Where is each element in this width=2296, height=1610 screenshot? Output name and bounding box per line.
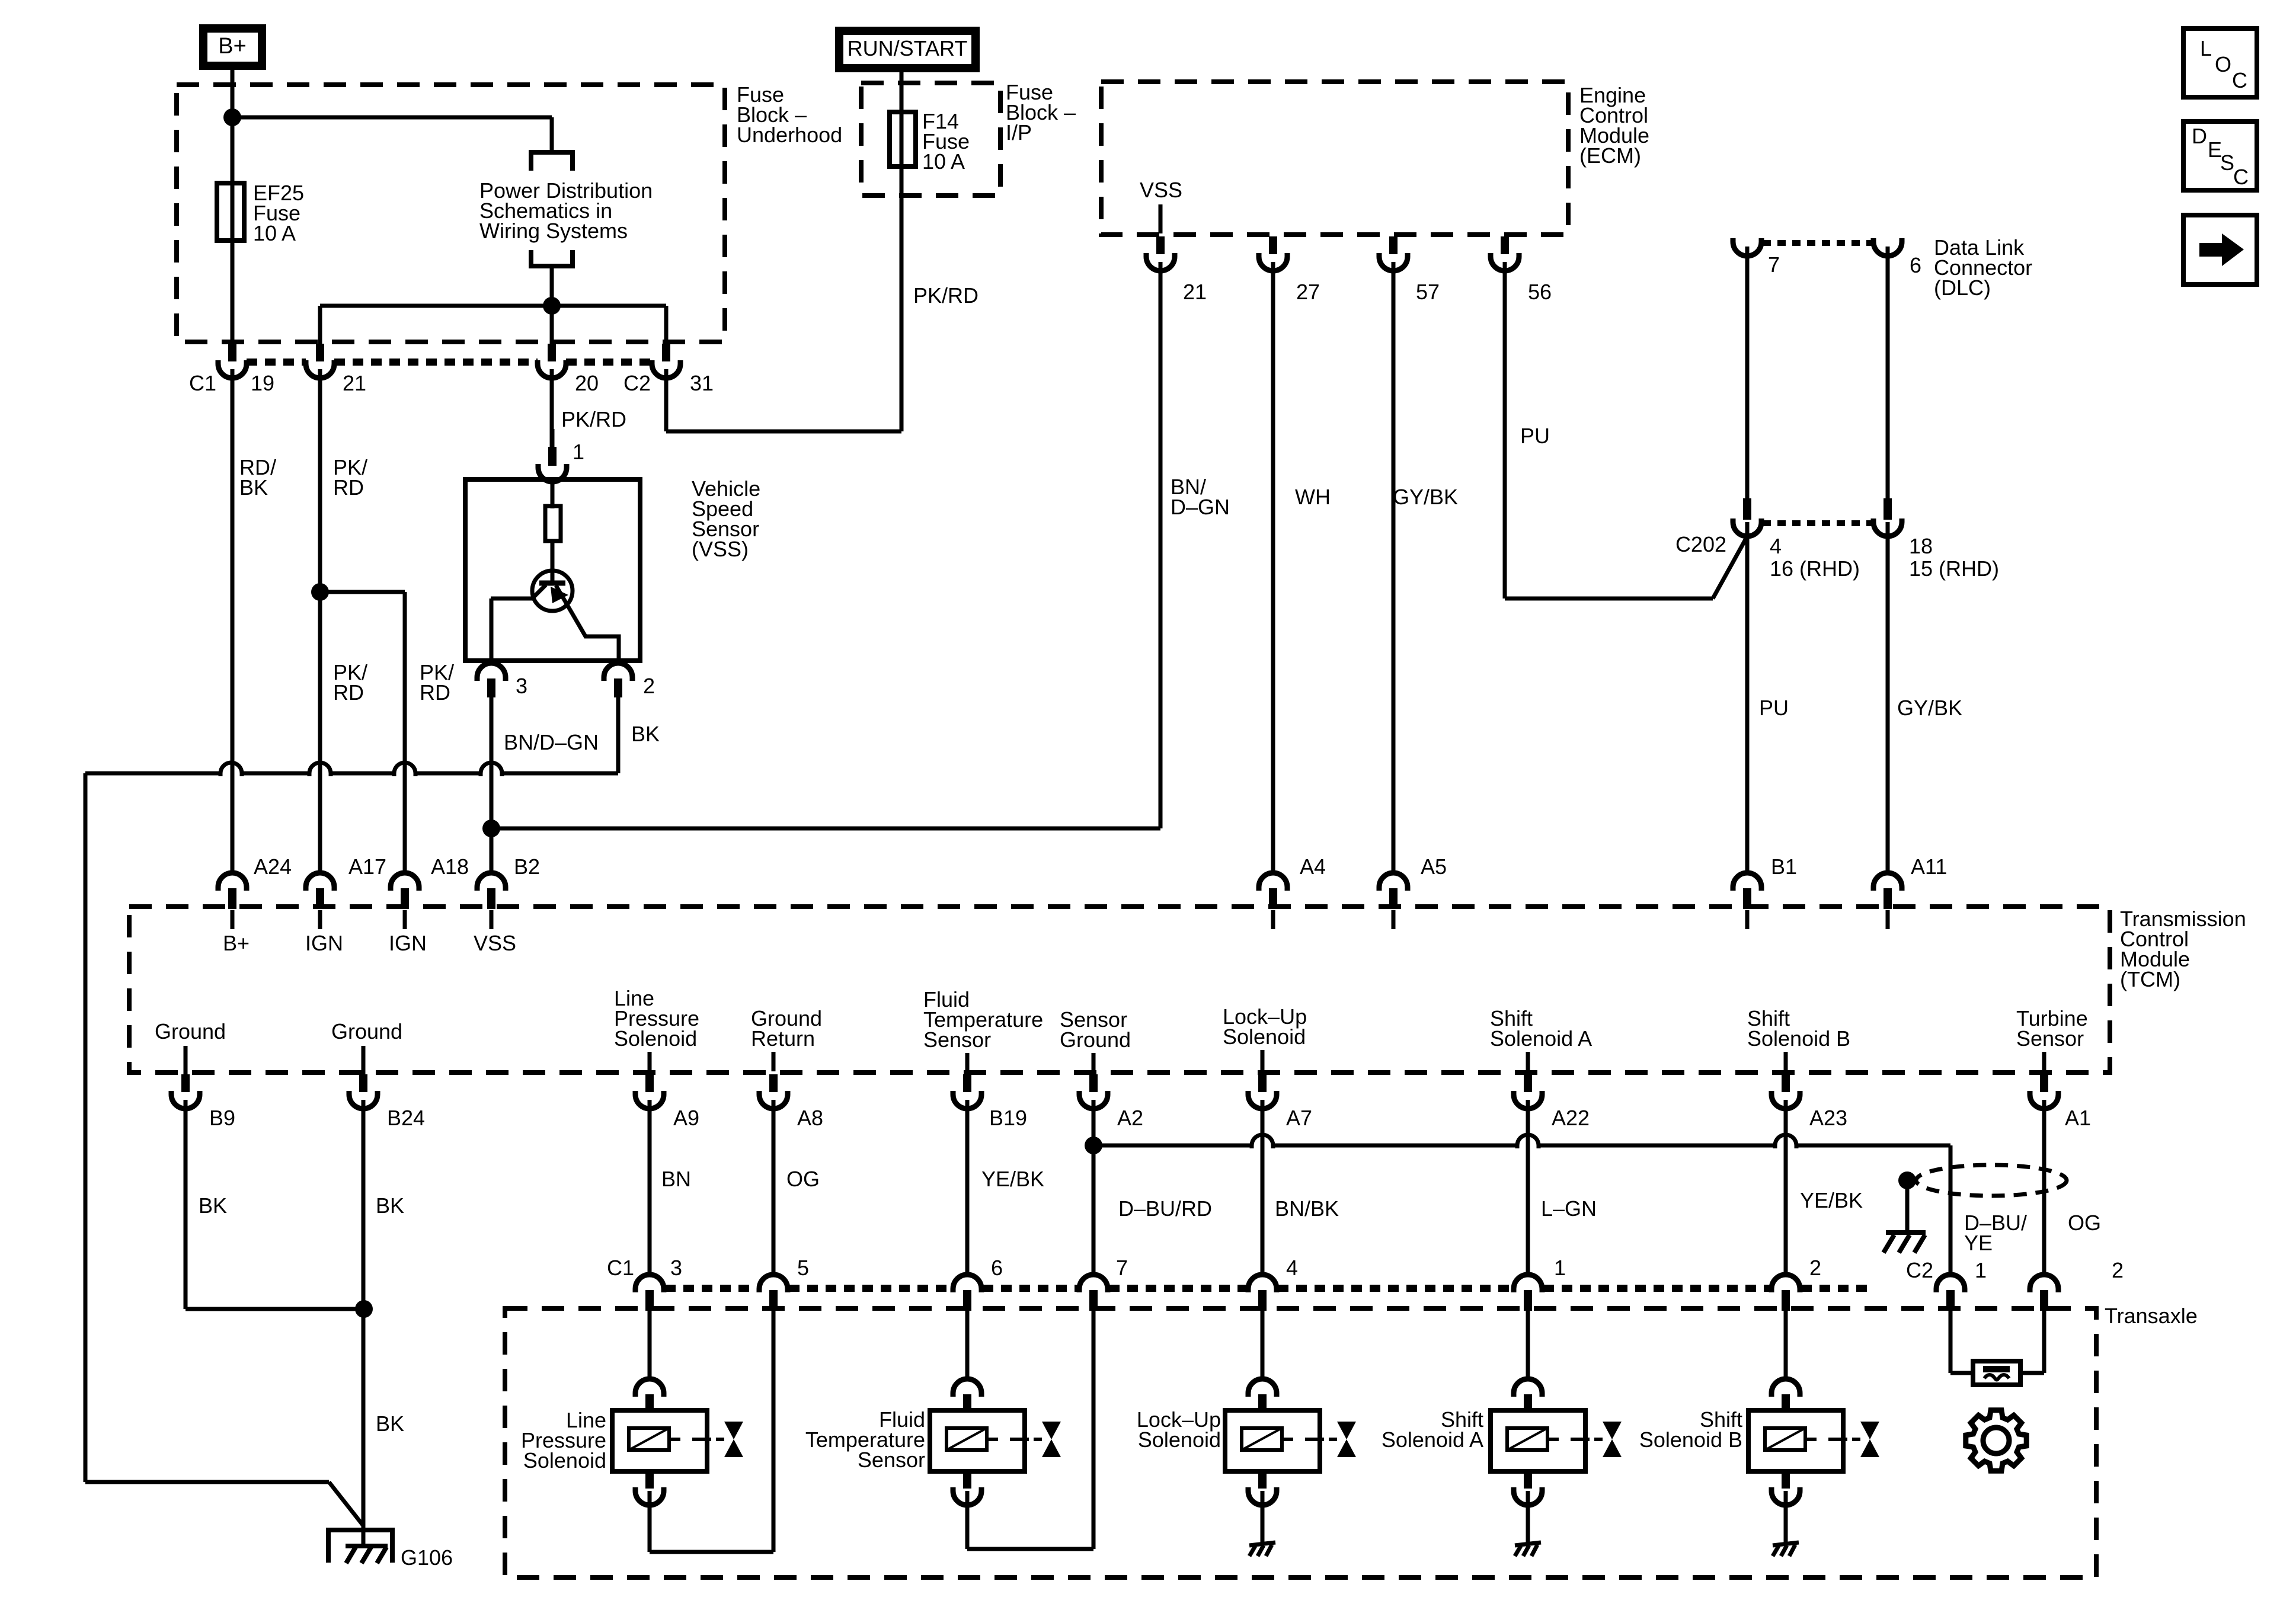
box LOC [2183, 28, 2257, 97]
fuse F14 [890, 112, 916, 167]
svg-text:PU: PU [1520, 424, 1550, 448]
svg-text:5: 5 [797, 1256, 809, 1280]
wire RUN/START to fuse F14 [900, 72, 904, 114]
label D-BU/RD [1118, 1196, 1212, 1221]
svg-text:YE/BK: YE/BK [1800, 1188, 1863, 1212]
labels PU GY/BK lower [1759, 696, 1962, 720]
svg-text:A2: A2 [1117, 1106, 1143, 1130]
connector TCM B24 [349, 1074, 378, 1109]
svg-text:RUN/START: RUN/START [848, 36, 968, 60]
svg-text:7: 7 [1116, 1256, 1128, 1280]
component shift solenoid A [1491, 1308, 1622, 1505]
label fuse EF25 [253, 181, 304, 245]
svg-text:D–GN: D–GN [1171, 495, 1230, 519]
label TCM pin A1 [2065, 1106, 2091, 1130]
wire PK/RD pin20 down [550, 376, 554, 447]
svg-text:PU: PU [1759, 696, 1789, 720]
svg-text:57: 57 [1416, 280, 1440, 304]
connector line DLC [1763, 240, 1872, 246]
label TCM sensor ground [1060, 1007, 1131, 1071]
labels DLC pins [1768, 252, 1921, 277]
svg-text:1: 1 [1554, 1256, 1566, 1280]
label TCM ground return [751, 1006, 822, 1071]
transistor VSS [491, 571, 619, 659]
label OG A1 [2068, 1211, 2101, 1235]
junction PK/RD [311, 583, 329, 601]
connector VSS pin 1 [538, 429, 567, 482]
label power distribution text [479, 178, 653, 243]
wire RD/BK [231, 376, 235, 874]
wire F14 to pin 31 [666, 375, 901, 431]
component line pressure solenoid [612, 1308, 743, 1505]
junction BK [355, 1300, 373, 1318]
svg-text:D–BU/RD: D–BU/RD [1118, 1196, 1212, 1221]
svg-text:Solenoid A: Solenoid A [1382, 1427, 1483, 1452]
connector TCM A2 [1079, 1074, 1108, 1109]
wire shift A ground [1526, 1491, 1530, 1543]
turbine sensor coil [1973, 1361, 2020, 1385]
svg-text:Ground: Ground [155, 1019, 226, 1044]
svg-text:C: C [2233, 165, 2249, 189]
label D-BU/YE [1964, 1211, 2027, 1255]
svg-text:I/P: I/P [1006, 120, 1032, 145]
wire junction to ECM21 [491, 827, 1160, 831]
connector bracket power distribution bottom [531, 250, 573, 266]
wire ECM 27 WH [1271, 267, 1275, 873]
label BK B24 [376, 1193, 404, 1218]
svg-text:Underhood: Underhood [737, 123, 842, 147]
svg-text:GY/BK: GY/BK [1897, 696, 1962, 720]
label BK VSS [631, 722, 660, 746]
wire F14 PK/RD down [900, 72, 904, 431]
svg-text:7: 7 [1768, 252, 1780, 277]
wire B24 BK [362, 1107, 366, 1547]
svg-text:IGN: IGN [389, 931, 427, 955]
labels fuse block pins [189, 371, 714, 395]
wire A8 OG [772, 1107, 776, 1275]
connector C2-2 [2030, 1273, 2058, 1311]
wire FTS return loop [967, 1308, 1093, 1549]
wire ECM VSS stub [1159, 204, 1163, 233]
svg-text:Sensor: Sensor [858, 1448, 925, 1472]
svg-text:Solenoid: Solenoid [1138, 1427, 1221, 1452]
svg-text:B19: B19 [989, 1106, 1027, 1130]
label TCM A17 [348, 854, 386, 879]
svg-text:19: 19 [251, 371, 274, 395]
connector TCM B1 [1733, 872, 1761, 929]
connector pin ECM 21 [1146, 236, 1175, 271]
connector VSS pin 2 [604, 663, 632, 773]
label line pressure solenoid [521, 1408, 606, 1473]
connector DLC pin 7 [1733, 238, 1761, 500]
svg-text:C2: C2 [1906, 1258, 1933, 1282]
label TCM B2 [514, 854, 540, 879]
svg-text:2: 2 [2112, 1258, 2124, 1282]
label TCM pin B9 [209, 1106, 235, 1130]
wire ECM 21 BN/D-GN [1159, 267, 1163, 828]
wire shift B ground [1784, 1491, 1788, 1543]
label ECM [1579, 83, 1649, 168]
wire C2-2 to coil [2020, 1308, 2044, 1373]
svg-text:B9: B9 [209, 1106, 235, 1130]
svg-text:B+: B+ [223, 931, 250, 955]
svg-text:Solenoid: Solenoid [523, 1448, 606, 1473]
box arrow [2183, 215, 2257, 284]
label G106 [401, 1545, 453, 1570]
svg-text:Return: Return [751, 1026, 815, 1051]
svg-text:C: C [2232, 68, 2247, 92]
wire fuse block bus [320, 304, 666, 308]
ground lock-up solenoid [1249, 1542, 1275, 1556]
svg-text:A8: A8 [797, 1106, 823, 1130]
svg-text:Ground: Ground [1060, 1028, 1131, 1052]
connector TCM A8 [759, 1074, 788, 1109]
svg-text:IGN: IGN [305, 931, 343, 955]
label fuse block underhood [737, 82, 842, 147]
labels C2 row [1906, 1258, 2124, 1282]
transaxle box [505, 1308, 2096, 1577]
wire sensor ground bus [1093, 1135, 1950, 1275]
wire B+ feed [231, 70, 235, 344]
wire BN/D-GN to B2 [490, 697, 494, 874]
svg-text:B1: B1 [1771, 854, 1797, 879]
svg-text:BK: BK [376, 1411, 404, 1436]
wire A23 YE/BK [1784, 1107, 1788, 1275]
svg-text:A1: A1 [2065, 1106, 2091, 1130]
wire ECM 56 PU [1505, 267, 1747, 598]
label TCM pin B19 [989, 1106, 1027, 1130]
label TCM A11 [1911, 854, 1947, 879]
wire C2-1 to coil [1950, 1308, 1973, 1373]
svg-text:A4: A4 [1300, 854, 1326, 879]
label VSS pin 3 [516, 674, 527, 698]
label TCM pin A2 [1117, 1106, 1143, 1130]
svg-text:1: 1 [1975, 1258, 1987, 1282]
svg-text:BK: BK [199, 1193, 227, 1218]
svg-text:RD: RD [333, 475, 364, 500]
wire B19 YE/BK [965, 1107, 970, 1275]
svg-text:BN: BN [661, 1167, 691, 1191]
connector line C202 [1763, 520, 1872, 526]
svg-text:3: 3 [516, 674, 527, 698]
component shift solenoid B [1748, 1308, 1879, 1505]
connector C202 pin 4 [1733, 498, 1761, 873]
svg-text:A7: A7 [1286, 1106, 1312, 1130]
wire B9 BK [186, 1107, 364, 1309]
labels C1 row [607, 1256, 1821, 1280]
box DESC [2183, 121, 2257, 190]
wire bus to pin 21 [318, 306, 322, 344]
svg-text:Solenoid: Solenoid [1223, 1025, 1306, 1049]
label C202 [1675, 532, 1726, 556]
label BN [661, 1167, 691, 1191]
connector C1-5 [759, 1273, 788, 1311]
svg-text:OG: OG [786, 1167, 820, 1191]
wire A22 L-GN [1526, 1107, 1530, 1275]
connector TCM A5 [1379, 872, 1408, 929]
svg-text:C1: C1 [607, 1256, 634, 1280]
label shift solenoid A [1382, 1407, 1483, 1452]
label ECM VSS [1140, 178, 1182, 202]
resistor VSS [545, 506, 561, 541]
label TCM A4 [1300, 854, 1326, 879]
connector TCM A22 [1514, 1074, 1542, 1109]
labels TCM top inside [223, 931, 516, 955]
connector C202 pin 18 [1873, 498, 1902, 873]
label YE/BK A23 [1800, 1188, 1863, 1212]
wire PK/RD pin21 down [318, 376, 322, 874]
junction A2 [1085, 1137, 1102, 1154]
wire LPS return loop [650, 1308, 773, 1552]
connector pin ECM 57 [1379, 236, 1408, 271]
connector TCM A23 [1771, 1074, 1800, 1109]
svg-text:18: 18 [1909, 534, 1933, 558]
label BN/D-GN VSS [504, 730, 599, 754]
svg-text:C2: C2 [623, 371, 651, 395]
svg-text:BK: BK [631, 722, 660, 746]
svg-text:BK: BK [376, 1193, 404, 1218]
label shift solenoid B [1639, 1407, 1742, 1452]
wire VSS internal top [551, 479, 555, 508]
svg-text:RD: RD [333, 680, 364, 705]
svg-text:(TCM): (TCM) [2120, 967, 2180, 991]
connector pin C2-31 [652, 344, 680, 378]
connector DLC pin 6 [1873, 238, 1902, 500]
connector VSS pin 3 [477, 663, 506, 874]
label GY/BK ECM [1393, 485, 1458, 509]
gear icon transaxle [1966, 1410, 2026, 1471]
component fluid temperature sensor [930, 1308, 1061, 1505]
svg-text:BN/D–GN: BN/D–GN [504, 730, 599, 754]
label TCM shift solenoid A [1490, 1006, 1592, 1071]
svg-text:A24: A24 [254, 854, 292, 879]
svg-text:31: 31 [690, 371, 714, 395]
connector pin 21 [306, 344, 334, 378]
label VSS pin 2 [643, 674, 655, 698]
wire ECM 57 GY/BK [1392, 267, 1396, 873]
wire lock-up ground [1261, 1491, 1265, 1543]
svg-text:21: 21 [343, 371, 366, 395]
svg-text:D: D [2192, 124, 2207, 148]
svg-text:GY/BK: GY/BK [1393, 485, 1458, 509]
svg-text:A11: A11 [1911, 854, 1947, 879]
label PK/RD F14 [913, 283, 978, 308]
connector TCM B9 [171, 1074, 200, 1109]
label TCM ground 2 [331, 1019, 402, 1075]
svg-text:(DLC): (DLC) [1934, 276, 1991, 300]
junction B+ feed [223, 108, 241, 126]
connector TCM A11 [1873, 872, 1902, 929]
svg-text:A17: A17 [348, 854, 386, 879]
svg-text:Solenoid B: Solenoid B [1747, 1026, 1850, 1051]
svg-text:OG: OG [2068, 1211, 2101, 1235]
connector pin C1-19 [218, 344, 247, 378]
svg-text:B24: B24 [387, 1106, 425, 1130]
connector TCM B2 [477, 872, 506, 929]
wire left vertical [84, 773, 88, 1482]
label fuse block IP [1006, 80, 1076, 145]
svg-text:A5: A5 [1421, 854, 1447, 879]
svg-text:Ground: Ground [331, 1019, 402, 1044]
svg-text:10 A: 10 A [922, 149, 965, 174]
svg-text:BN/BK: BN/BK [1275, 1196, 1339, 1221]
svg-text:VSS: VSS [474, 931, 516, 955]
svg-text:PK/RD: PK/RD [561, 407, 626, 431]
label WH [1295, 485, 1331, 509]
label lock-up solenoid [1137, 1407, 1221, 1452]
svg-text:L–GN: L–GN [1541, 1196, 1597, 1221]
svg-text:56: 56 [1528, 280, 1552, 304]
label TCM pin A8 [797, 1106, 823, 1130]
svg-text:A22: A22 [1552, 1106, 1590, 1130]
labels C202 pins [1770, 534, 1999, 581]
svg-text:VSS: VSS [1140, 178, 1182, 202]
svg-text:Solenoid: Solenoid [614, 1026, 697, 1051]
svg-text:1: 1 [573, 440, 584, 464]
svg-text:10 A: 10 A [253, 221, 296, 245]
label TCM A5 [1421, 854, 1447, 879]
shield ground drain [1884, 1172, 1926, 1253]
component lock-up solenoid [1225, 1308, 1356, 1505]
svg-text:B+: B+ [218, 34, 247, 59]
connector pin 20 [538, 344, 566, 378]
label TCM shift solenoid B [1747, 1006, 1850, 1071]
wire VSS resistor to transistor [551, 541, 555, 583]
fuse block underhood box [177, 85, 725, 342]
transmission control module box [129, 907, 2110, 1073]
junction fuse block bus [543, 297, 561, 315]
label vehicle speed sensor [692, 476, 760, 561]
svg-text:A23: A23 [1809, 1106, 1847, 1130]
label fluid temperature sensor [805, 1407, 925, 1472]
svg-text:RD: RD [420, 680, 450, 705]
label PU ECM [1520, 424, 1550, 448]
label TCM fluid temperature sensor [923, 987, 1043, 1071]
label PK/RD A18 [420, 660, 454, 705]
svg-text:PK/RD: PK/RD [913, 283, 978, 308]
label BK G106 [376, 1411, 404, 1436]
label TCM pin A23 [1809, 1106, 1847, 1130]
ground shift solenoid B [1773, 1542, 1799, 1556]
label RD/BK [239, 455, 276, 500]
label TCM ground 1 [155, 1019, 226, 1075]
connector TCM A1 [2030, 1074, 2058, 1109]
wire power distribution drop [550, 117, 554, 151]
svg-text:YE: YE [1964, 1231, 1993, 1255]
connector TCM A7 [1248, 1074, 1277, 1109]
connector C1-2 [1771, 1273, 1800, 1311]
label BN/BK [1275, 1196, 1339, 1221]
power symbol B+ box [199, 24, 266, 70]
label PK/RD 21 [333, 455, 367, 500]
wire A1 OG [2042, 1107, 2046, 1275]
connector TCM A4 [1259, 872, 1287, 929]
wire left bottom [85, 1482, 364, 1526]
svg-text:4: 4 [1770, 534, 1782, 558]
connector C1-6 [953, 1273, 981, 1311]
svg-text:(ECM): (ECM) [1579, 143, 1641, 168]
fuse EF25 [217, 183, 244, 241]
svg-text:27: 27 [1296, 280, 1320, 304]
label TCM A18 [431, 854, 469, 879]
label BN/D-GN ECM [1171, 475, 1230, 519]
connector bracket power distribution top [531, 152, 573, 171]
labels ECM pins [1183, 280, 1552, 304]
svg-text:Transaxle: Transaxle [2105, 1304, 2198, 1328]
wire B+ to power distribution [232, 116, 552, 120]
svg-text:2: 2 [643, 674, 655, 698]
svg-text:21: 21 [1183, 280, 1207, 304]
wire VSS base to pin 3 [490, 598, 494, 661]
label TCM lock-up solenoid [1223, 1004, 1307, 1071]
svg-text:WH: WH [1295, 485, 1331, 509]
ground G106 [328, 1530, 392, 1563]
svg-text:BK: BK [239, 475, 268, 500]
wire power distribution to bus [550, 266, 554, 344]
svg-text:Sensor: Sensor [923, 1028, 991, 1052]
svg-text:G106: G106 [401, 1545, 453, 1570]
svg-text:Solenoid B: Solenoid B [1639, 1427, 1742, 1452]
label TCM pin A7 [1286, 1106, 1312, 1130]
svg-text:20: 20 [575, 371, 599, 395]
label PK/RD 20 [561, 407, 626, 431]
connector TCM A17 [306, 872, 334, 929]
wire bus to pin 31 [664, 306, 669, 344]
vehicle speed sensor box [465, 479, 640, 661]
svg-text:Solenoid A: Solenoid A [1490, 1026, 1592, 1051]
svg-text:4: 4 [1286, 1256, 1298, 1280]
shield ellipse [1916, 1165, 2067, 1196]
svg-text:Wiring Systems: Wiring Systems [479, 219, 628, 243]
svg-text:O: O [2215, 52, 2231, 76]
power symbol RUN/START box [835, 27, 980, 72]
wire A2 D-BU/RD [1092, 1107, 1096, 1275]
svg-text:A18: A18 [431, 854, 469, 879]
svg-text:S: S [2220, 151, 2234, 175]
label TCM pin B24 [387, 1106, 425, 1130]
wire PK/RD branch [320, 592, 405, 874]
wire A7 BN/BK [1261, 1107, 1265, 1275]
label TCM [2120, 907, 2246, 991]
label OG A8 [786, 1167, 820, 1191]
wire A9 BN [648, 1107, 652, 1275]
connector C2-1 [1936, 1273, 1965, 1311]
connector TCM A18 [391, 872, 419, 929]
connector C1-1 [1514, 1273, 1542, 1311]
junction BN/D-GN [482, 820, 500, 837]
engine control module box [1101, 82, 1568, 235]
svg-text:L: L [2200, 36, 2212, 60]
connector pin ECM 56 [1491, 236, 1519, 271]
svg-text:3: 3 [670, 1256, 682, 1280]
connector line C1/C2 fuse block [247, 359, 652, 366]
connector C1-7 [1079, 1273, 1108, 1311]
connector C1-3 [635, 1273, 664, 1311]
label VSS pin 1 [573, 440, 584, 464]
fuse block IP box [861, 83, 1000, 196]
svg-text:C202: C202 [1675, 532, 1726, 556]
connector TCM B19 [953, 1074, 981, 1109]
svg-text:16 (RHD): 16 (RHD) [1770, 556, 1860, 581]
label TCM turbine sensor [2016, 1006, 2088, 1071]
label BK B9 [199, 1193, 227, 1218]
connector pin ECM 27 [1259, 236, 1287, 271]
label TCM line pressure solenoid [614, 986, 699, 1071]
label TCM pin A9 [673, 1106, 699, 1130]
label PK/RD A17 [333, 660, 367, 705]
svg-text:B2: B2 [514, 854, 540, 879]
svg-text:A9: A9 [673, 1106, 699, 1130]
